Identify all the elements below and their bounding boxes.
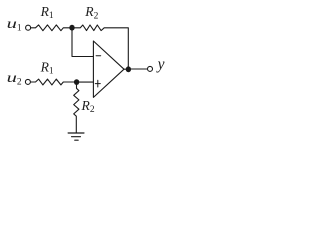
svg-text:y: y [156, 56, 165, 73]
svg-text:u1: u1 [7, 16, 22, 33]
svg-text:R1: R1 [40, 59, 54, 76]
svg-text:u2: u2 [7, 70, 22, 88]
svg-text:R2: R2 [84, 4, 98, 21]
svg-text:R2: R2 [81, 98, 95, 115]
svg-text:R1: R1 [40, 4, 54, 21]
